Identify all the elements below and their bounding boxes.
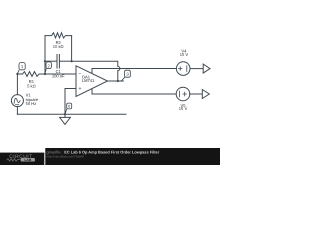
- junction C1/R2 right lead: [71, 60, 73, 62]
- svg-text:5 kΩ: 5 kΩ: [27, 84, 36, 89]
- wire bottom rail: [17, 113, 126, 115]
- wire feedback left vertical: [44, 36, 46, 74]
- labels: [26, 40, 189, 111]
- junction node 0 (ground tap): [64, 113, 66, 115]
- svg-text:15 V: 15 V: [179, 106, 188, 111]
- op-amp power stubs: [91, 69, 93, 74]
- footer logo block: [0, 153, 44, 165]
- junction node 2 (R1/R2/C1/op-amp minus): [44, 73, 46, 75]
- wire V+ rail to V4: [92, 68, 177, 70]
- node 3: [121, 70, 130, 81]
- svg-text:50 Hz: 50 Hz: [26, 101, 37, 106]
- node 2: [45, 62, 52, 74]
- wire V- rail to V5: [92, 93, 176, 95]
- wire R1 to opamp: [45, 73, 76, 75]
- svg-text:LAB: LAB: [24, 158, 32, 162]
- capacitor C1: [45, 60, 57, 62]
- svg-text:LM741: LM741: [82, 78, 95, 83]
- wire feedback top to output: [72, 61, 120, 81]
- port arrow out V5: [202, 90, 209, 99]
- wire main row node1 to opamp minus: [17, 73, 22, 75]
- port arrow out V4: [203, 64, 210, 73]
- footer info bar: [45, 148, 220, 165]
- junction node 3 (output): [117, 80, 119, 82]
- op-amp OA1 triangle: [76, 66, 108, 97]
- wire V1 bottom vertical: [16, 107, 18, 115]
- node 1: [17, 63, 25, 74]
- voltage source V1: [11, 95, 23, 107]
- wire V1 top vertical: [16, 74, 18, 95]
- resistor R1: [23, 72, 46, 77]
- svg-text:10 kΩ: 10 kΩ: [53, 44, 64, 49]
- voltage source V4: [176, 62, 190, 76]
- node 0: [65, 103, 72, 114]
- svg-text:0: 0: [68, 105, 70, 109]
- voltage source V5: [176, 87, 190, 101]
- wire output stub: [108, 80, 124, 82]
- svg-text:+: +: [79, 86, 82, 92]
- svg-text:100 nF: 100 nF: [52, 73, 65, 78]
- svg-text:http://circuitlab.com/7bzwt9: http://circuitlab.com/7bzwt9: [47, 154, 85, 158]
- resistor R2: [45, 33, 72, 38]
- op-amp plus input wire to ground: [65, 89, 76, 115]
- junction C1 left lead: [44, 60, 46, 62]
- svg-text:15 V: 15 V: [180, 52, 189, 57]
- ground: [64, 114, 66, 117]
- junction node 1 (V1/R1 corner): [16, 73, 18, 75]
- wire feedback right vertical: [71, 36, 73, 62]
